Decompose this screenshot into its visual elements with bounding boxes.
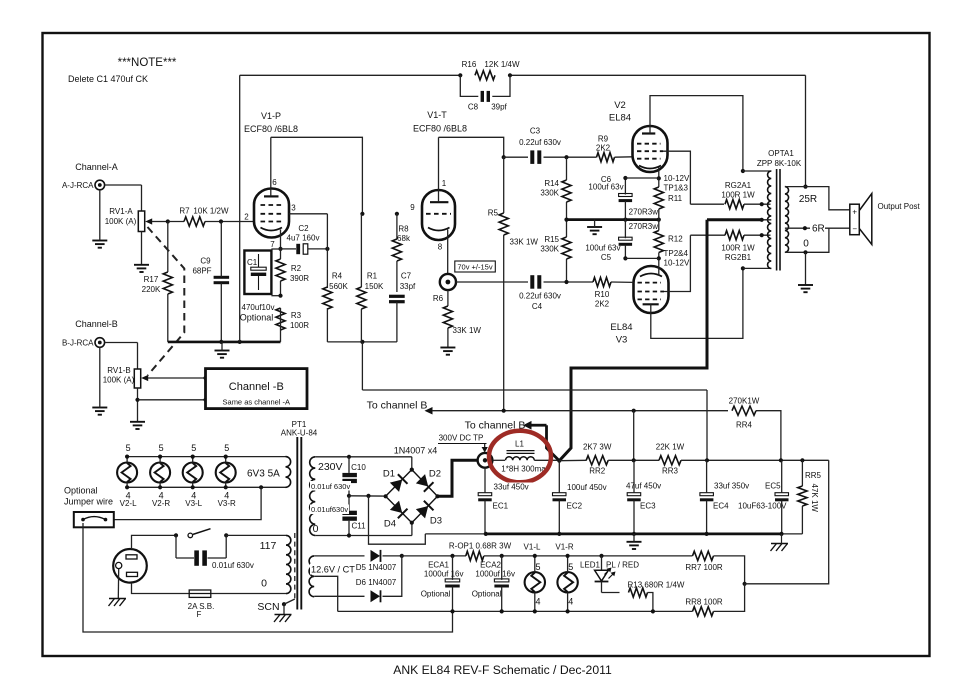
label 33uf 450v	[492, 483, 534, 493]
svg-text:C5: C5	[601, 253, 612, 262]
grid dashes	[638, 291, 665, 293]
tube V3	[634, 266, 669, 313]
wire	[137, 388, 139, 422]
node	[450, 609, 454, 613]
wire	[205, 221, 255, 223]
wire 0 lead	[315, 535, 412, 537]
capacitor EC3	[627, 493, 641, 496]
heater V2-L	[117, 463, 137, 483]
PT1 screen dashed	[294, 533, 296, 599]
resistor R10	[593, 277, 611, 286]
svg-text:R13 680R 1/4W: R13 680R 1/4W	[628, 581, 685, 590]
svg-text:33pf: 33pf	[400, 282, 416, 291]
node	[566, 609, 570, 613]
node	[623, 176, 627, 180]
node	[203, 398, 207, 402]
svg-text:C2: C2	[298, 224, 309, 233]
node	[158, 485, 162, 489]
potentiometer RV1-A	[138, 211, 144, 232]
jumper return wire	[83, 523, 453, 632]
heater DC return rail	[338, 610, 693, 612]
ground	[587, 226, 602, 228]
svg-text:R-OP1 0.68R 3W: R-OP1 0.68R 3W	[449, 542, 512, 551]
node	[325, 247, 329, 251]
wire	[805, 252, 807, 285]
node	[623, 218, 627, 222]
wire	[744, 234, 771, 236]
choke L1	[492, 459, 505, 461]
resistor R11	[654, 187, 663, 209]
svg-text:Same as channel -A: Same as channel -A	[223, 398, 291, 407]
wire	[271, 248, 280, 250]
wire	[744, 203, 771, 205]
ground	[627, 541, 642, 543]
node	[278, 294, 282, 298]
node	[564, 155, 568, 159]
resistor RR3	[659, 456, 681, 465]
capacitor C1	[258, 254, 260, 267]
svg-text:ECF80 /6BL8: ECF80 /6BL8	[413, 124, 467, 134]
node	[623, 256, 627, 260]
svg-text:D4: D4	[384, 519, 396, 530]
node	[384, 494, 388, 498]
capacitor C7	[389, 295, 405, 298]
anode V1-P	[264, 195, 279, 197]
node	[803, 185, 807, 189]
diode D1	[390, 474, 408, 492]
wire	[105, 184, 142, 186]
grid dashes	[638, 282, 662, 284]
PT1 6.3V winding	[286, 457, 291, 488]
svg-text:100uf 63v: 100uf 63v	[585, 244, 620, 253]
svg-text:5: 5	[224, 443, 229, 453]
input stage lower bus	[327, 341, 397, 343]
node	[564, 280, 568, 284]
svg-text:ECA1: ECA1	[428, 561, 449, 570]
node	[158, 455, 162, 459]
tube V1-T	[422, 190, 455, 240]
wire	[168, 221, 184, 223]
svg-text:330K: 330K	[540, 189, 559, 198]
PT1 12.6V winding	[309, 556, 314, 597]
node	[450, 554, 454, 558]
svg-text:100R 1W: 100R 1W	[721, 191, 755, 200]
screen wire V3	[664, 235, 690, 291]
wire	[625, 257, 658, 259]
svg-text:R14: R14	[544, 179, 559, 188]
to channel B thick arrow	[531, 424, 547, 427]
node	[779, 458, 783, 462]
svg-text:2K7 3W: 2K7 3W	[583, 443, 612, 452]
wire	[681, 459, 829, 461]
grid dashes	[637, 150, 663, 152]
svg-text:RV1-B: RV1-B	[107, 366, 130, 375]
svg-text:8: 8	[438, 243, 443, 252]
diode D6	[371, 590, 381, 602]
node	[632, 458, 636, 462]
heater V1-R	[557, 572, 577, 592]
capacitor C2	[281, 248, 297, 250]
node	[557, 532, 561, 536]
svg-text:RR4: RR4	[736, 421, 753, 430]
svg-text:10-12V: 10-12V	[664, 174, 690, 183]
svg-text:33K 1W: 33K 1W	[510, 238, 539, 247]
svg-text:EL84: EL84	[610, 322, 632, 333]
tube V1-P	[254, 189, 289, 238]
cathode V1-T	[428, 228, 450, 231]
grid dashes g3	[261, 204, 282, 206]
svg-text:100uf 63v: 100uf 63v	[588, 183, 623, 192]
cathode V3	[640, 274, 662, 277]
svg-text:5: 5	[159, 443, 164, 453]
cathode V2	[639, 166, 661, 169]
node	[743, 582, 747, 586]
svg-text:C11: C11	[351, 522, 366, 531]
svg-text:+: +	[852, 208, 857, 217]
plug neutral wire	[132, 583, 190, 594]
svg-text:33uf 450v: 33uf 450v	[494, 483, 529, 492]
grid dashes V1-T	[426, 213, 451, 215]
svg-text:R5: R5	[488, 209, 499, 218]
ground	[130, 421, 145, 423]
wire	[544, 156, 597, 158]
bias reference wire	[745, 460, 829, 584]
svg-text:V3-R: V3-R	[218, 499, 236, 508]
node	[360, 212, 364, 216]
heater bottom rail	[127, 486, 285, 488]
resistor RR2	[586, 456, 608, 465]
resistor RG2A1	[725, 200, 744, 209]
svg-text:10K 1/2W: 10K 1/2W	[193, 207, 229, 216]
bridge plus thick	[438, 460, 478, 496]
wire	[314, 555, 364, 557]
svg-text:ZPP 8K-10K: ZPP 8K-10K	[757, 159, 802, 168]
wire	[648, 593, 653, 612]
svg-text:D3: D3	[430, 516, 442, 527]
PT1 core	[296, 437, 298, 610]
OPT primary winding	[768, 171, 772, 269]
svg-text:C1: C1	[247, 258, 258, 267]
resistor R12	[654, 231, 663, 253]
node	[566, 554, 570, 558]
capacitor EC4	[700, 493, 714, 496]
node	[500, 554, 504, 558]
svg-text:390R: 390R	[290, 274, 309, 283]
svg-text:Output Post: Output Post	[878, 202, 921, 211]
heater top rail	[127, 456, 285, 458]
OPT core	[776, 169, 778, 271]
svg-text:0.22uf 630v: 0.22uf 630v	[519, 138, 561, 147]
resistor R1	[357, 287, 366, 309]
svg-text:EC4: EC4	[713, 502, 729, 511]
svg-text:1: 1	[442, 179, 447, 188]
svg-text:9: 9	[410, 203, 415, 212]
svg-text:Channel-A: Channel-A	[75, 162, 118, 172]
svg-text:5: 5	[191, 443, 196, 453]
svg-text:6: 6	[272, 178, 277, 187]
capacitor C10	[342, 473, 357, 477]
label box 70v +/-15v	[455, 261, 496, 272]
capacitor C6	[619, 194, 633, 197]
potentiometer RV1-B	[134, 369, 140, 388]
wire	[608, 459, 659, 461]
svg-text:D1: D1	[383, 469, 395, 480]
capacitor C3	[530, 150, 534, 164]
svg-text:EL84: EL84	[609, 113, 631, 124]
feedback drop wire	[805, 75, 807, 186]
wire	[315, 456, 412, 458]
node	[564, 218, 568, 222]
test point circle 70v	[440, 274, 456, 290]
svg-text:4u7 160v: 4u7 160v	[287, 234, 320, 243]
ground bus	[425, 533, 486, 535]
heater V3-L	[183, 463, 203, 483]
node	[500, 609, 504, 613]
svg-text:22K 1W: 22K 1W	[656, 443, 685, 452]
node	[651, 609, 655, 613]
node	[657, 218, 661, 222]
node	[219, 219, 223, 223]
wire	[326, 214, 328, 288]
node	[125, 455, 129, 459]
resistor R7	[184, 217, 205, 226]
svg-text:RR2: RR2	[589, 467, 606, 476]
svg-text:150K: 150K	[365, 282, 384, 291]
wire pin8	[447, 230, 449, 274]
node	[435, 494, 439, 498]
wire	[743, 170, 771, 172]
diode D4	[390, 500, 408, 518]
svg-text:R9: R9	[598, 135, 609, 144]
TP arrow	[484, 444, 486, 448]
led LED1	[601, 556, 603, 570]
svg-text:Optional: Optional	[421, 590, 451, 599]
CT wire	[314, 576, 338, 611]
node	[347, 533, 351, 537]
svg-text:25R: 25R	[799, 194, 817, 205]
wire	[271, 295, 280, 297]
svg-text:0.01uf 630v: 0.01uf 630v	[212, 561, 254, 570]
ground rail	[567, 218, 661, 221]
wire anode V3	[651, 268, 743, 338]
resistor R9	[597, 153, 615, 162]
svg-text:R8: R8	[398, 225, 409, 234]
capacitor C5	[619, 237, 633, 240]
svg-text:0: 0	[803, 239, 809, 250]
node	[238, 340, 242, 344]
switch cap branch	[175, 535, 177, 558]
wire	[706, 390, 708, 460]
sec 0 wire	[785, 228, 829, 252]
node	[533, 554, 537, 558]
node	[502, 155, 506, 159]
svg-text:5: 5	[126, 443, 131, 453]
resistor R15	[562, 237, 571, 259]
svg-text:2K2: 2K2	[595, 300, 610, 309]
svg-text:EC1: EC1	[493, 502, 509, 511]
svg-text:4: 4	[568, 597, 573, 607]
wire	[625, 177, 658, 179]
ground	[92, 407, 107, 409]
feedback rail	[240, 74, 461, 76]
wire	[611, 281, 634, 283]
svg-text:EC5: EC5	[765, 482, 781, 491]
wire	[743, 267, 771, 269]
svg-text:Optional: Optional	[472, 590, 502, 599]
grid dashes	[638, 298, 662, 300]
svg-text:R15: R15	[544, 235, 559, 244]
capacitor C9	[214, 276, 230, 279]
heater DC rail	[402, 555, 466, 557]
chassis ground	[275, 614, 292, 616]
wire anode V2	[650, 96, 743, 171]
rca jack B-J-RCA	[95, 338, 105, 348]
svg-text:R4: R4	[332, 272, 343, 281]
anode loop wire	[439, 137, 504, 157]
svg-text:TP2&4: TP2&4	[664, 249, 689, 258]
svg-text:C8: C8	[468, 103, 479, 112]
node	[741, 266, 745, 270]
bridge rectifier frame	[386, 470, 438, 523]
svg-text:2K2: 2K2	[596, 144, 611, 153]
node	[395, 212, 399, 216]
wire	[141, 185, 143, 211]
label 12.6V / CT	[310, 564, 354, 575]
node	[705, 532, 709, 536]
svg-text:Channel-B: Channel-B	[75, 319, 118, 329]
node	[259, 485, 263, 489]
speaker horn	[859, 194, 872, 245]
svg-text:117: 117	[260, 540, 277, 552]
node	[705, 458, 709, 462]
svg-text:Delete C1 470uf CK: Delete C1 470uf CK	[68, 74, 148, 84]
svg-text:R11: R11	[668, 194, 683, 203]
resistor R6	[443, 306, 452, 328]
svg-text:V1-R: V1-R	[555, 543, 573, 552]
capacitor ECA2	[494, 579, 509, 582]
resistor R13	[629, 588, 648, 597]
node	[360, 340, 364, 344]
svg-text:100K (A): 100K (A)	[105, 217, 137, 226]
plug live wire	[132, 535, 177, 549]
svg-text:SCN: SCN	[257, 601, 279, 613]
svg-text:1000uf 16v: 1000uf 16v	[424, 570, 464, 579]
node	[779, 532, 783, 536]
svg-text:LED1: LED1	[580, 561, 601, 570]
label 0.01uf630v	[310, 505, 349, 515]
svg-text:RR7 100R: RR7 100R	[685, 563, 723, 572]
svg-text:47K 1W: 47K 1W	[810, 484, 819, 513]
svg-text:560K: 560K	[329, 282, 348, 291]
svg-text:Optional: Optional	[240, 313, 274, 323]
svg-text:C9: C9	[200, 257, 211, 266]
red circle highlight	[489, 431, 551, 483]
svg-text:V2-R: V2-R	[152, 499, 170, 508]
anode V2	[642, 132, 655, 134]
capacitor C1 box	[244, 251, 271, 295]
svg-text:V1-T: V1-T	[427, 110, 447, 120]
cathode V1-P	[261, 228, 283, 231]
node	[632, 409, 636, 413]
svg-text:RR5: RR5	[805, 471, 822, 480]
resistor R17	[163, 272, 172, 294]
svg-text:1*8H 300ma: 1*8H 300ma	[501, 465, 546, 474]
mid wire	[349, 495, 386, 497]
resistor RR8	[693, 607, 714, 616]
test point circle 300V	[478, 453, 493, 468]
wire	[559, 459, 586, 461]
svg-text:C3: C3	[530, 127, 541, 136]
node	[135, 398, 139, 402]
svg-text:68k: 68k	[397, 234, 411, 243]
resistor R4	[323, 287, 332, 309]
anode V1-T	[430, 201, 448, 203]
resistor RR4	[732, 406, 756, 415]
svg-text:230V: 230V	[318, 461, 343, 473]
svg-text:D2: D2	[429, 469, 441, 480]
heater V2-R	[150, 463, 170, 483]
svg-text:D5 1N4007: D5 1N4007	[356, 563, 397, 572]
wire	[504, 156, 528, 158]
wire	[756, 411, 781, 461]
svg-text:EC3: EC3	[640, 502, 656, 511]
wire	[138, 399, 206, 401]
grid dashes	[637, 143, 661, 145]
svg-text:12K 1/4W: 12K 1/4W	[484, 60, 520, 69]
svg-text:PL / RED: PL / RED	[606, 561, 639, 570]
label 0.01uf 630v	[310, 481, 351, 491]
wire	[633, 411, 635, 461]
svg-text:300V DC TP: 300V DC TP	[439, 434, 484, 443]
sec 6R wire	[785, 227, 850, 229]
ground	[798, 284, 813, 286]
node	[191, 455, 195, 459]
node	[760, 202, 764, 206]
wire	[456, 281, 528, 283]
svg-text:Channel -B: Channel -B	[229, 381, 284, 393]
svg-text:ANK EL84 REV-F Schematic / Dec: ANK EL84 REV-F Schematic / Dec-2011	[393, 663, 612, 677]
wire	[239, 75, 241, 342]
resistor RG2B1	[725, 231, 744, 240]
node	[533, 609, 537, 613]
resistor R5	[499, 213, 508, 235]
anode loop wire	[271, 137, 363, 214]
B+ centre tap wire	[707, 218, 762, 221]
wire	[141, 232, 143, 265]
svg-text:0: 0	[313, 523, 319, 535]
node	[224, 485, 228, 489]
svg-text:Optional: Optional	[64, 486, 98, 496]
node	[803, 226, 807, 230]
svg-text:L1: L1	[515, 440, 524, 449]
node	[219, 340, 223, 344]
svg-text:R10: R10	[595, 290, 610, 299]
svg-text:TP1&3: TP1&3	[664, 184, 689, 193]
jumper wire box	[74, 512, 114, 527]
capacitor C8	[460, 75, 478, 96]
svg-text:33K 1W: 33K 1W	[453, 326, 482, 335]
wire	[615, 156, 633, 158]
resistor R16	[475, 71, 495, 80]
svg-text:R3: R3	[291, 311, 302, 320]
svg-text:70v +/-15v: 70v +/-15v	[457, 263, 492, 272]
node	[366, 494, 370, 498]
wire	[361, 342, 363, 390]
resistor R-OP1	[466, 551, 484, 560]
svg-text:To channel B: To channel B	[367, 400, 428, 412]
wire	[602, 592, 620, 594]
svg-text:R12: R12	[668, 235, 683, 244]
